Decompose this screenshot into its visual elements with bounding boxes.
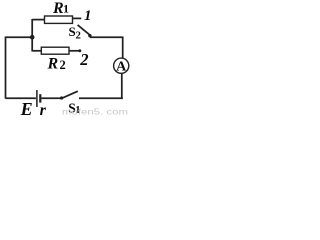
svg-text:1: 1 — [84, 8, 92, 24]
svg-text:2: 2 — [60, 58, 66, 72]
svg-text:A: A — [116, 59, 127, 74]
svg-text:2: 2 — [79, 50, 88, 69]
svg-text:1: 1 — [63, 2, 69, 16]
svg-text:E: E — [20, 99, 33, 117]
svg-text:mofen5. com: mofen5. com — [62, 108, 128, 117]
svg-text:R: R — [47, 56, 59, 73]
svg-text:2: 2 — [76, 30, 81, 41]
svg-text:r: r — [40, 102, 47, 117]
